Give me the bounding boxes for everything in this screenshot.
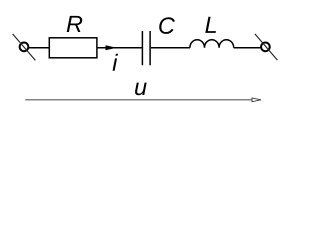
inductor L	[190, 40, 234, 48]
voltage arrow u (open head)	[252, 98, 261, 102]
wire inductor L to terminal T2	[234, 47, 261, 49]
label C	[159, 17, 175, 34]
capacitor C	[142, 31, 150, 65]
label L	[205, 17, 216, 33]
resistor R	[49, 38, 97, 58]
label u	[135, 83, 147, 96]
wire terminal T1 to resistor R	[29, 47, 49, 49]
terminal T1 (left, circle with slash)	[13, 34, 36, 61]
wire resistor R to capacitor C	[97, 47, 142, 49]
label R	[67, 16, 83, 32]
current arrow i	[106, 45, 117, 50]
wire capacitor C to inductor L	[151, 47, 190, 49]
terminal T2 (right, circle with slash)	[255, 34, 278, 60]
label i	[113, 54, 118, 71]
voltage arrow u (line)	[25, 99, 252, 101]
